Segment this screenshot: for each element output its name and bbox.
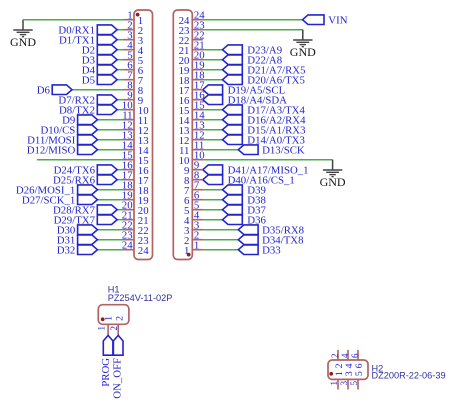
signal flag D13/SCK	[238, 145, 258, 155]
wire D29/TX7 to J1 pin 21	[117, 219, 124, 221]
signal flag D40/A16/CS_1	[203, 175, 223, 185]
label GND (GND1 top-left)	[10, 35, 36, 49]
connector J1 body (24-pin header, left)	[134, 10, 153, 260]
pin number H2.2	[330, 353, 340, 358]
connector H1 body	[98, 305, 129, 325]
signal flag D3	[97, 55, 117, 65]
svg-text:1: 1	[97, 326, 107, 331]
svg-text:2: 2	[330, 353, 340, 358]
pin name H2.2	[334, 363, 345, 368]
wire J2 pin 19 to D21/A7/RX5	[203, 69, 223, 71]
net label D37	[247, 204, 266, 216]
pin H2.5 (stub bottom)	[357, 379, 359, 389]
signal flag D41/A17/MISO_1	[203, 165, 223, 175]
signal flag D39	[223, 185, 243, 195]
wire D28/RX7 to J1 pin 20	[117, 209, 124, 211]
net label ON_OFF	[112, 358, 124, 399]
pins J1 1-24 (stubs)	[124, 20, 135, 250]
label VIN	[328, 14, 347, 26]
signal flag D19/A5/SCL	[203, 85, 223, 95]
signal flag D34/TX8	[238, 235, 258, 245]
wire J2 pin 3 to D35/RX8	[203, 229, 239, 231]
wire J2 pin 15 to D17/A3/TX4	[203, 109, 223, 111]
wire D7/RX2 to J1 pin 9	[117, 99, 124, 101]
net label D18/A4/SDA	[228, 94, 288, 106]
net label D23/A9	[247, 44, 282, 56]
net label D14/A0/TX3	[247, 134, 305, 146]
net label D39	[247, 184, 266, 196]
svg-text:4: 4	[340, 353, 350, 358]
svg-text:2: 2	[114, 316, 125, 321]
net label D13/SCK	[262, 144, 305, 156]
wire GND1 to J1 pin 1	[23, 19, 124, 21]
wire D6 to J1 pin 8	[72, 89, 124, 91]
svg-text:D33: D33	[262, 244, 281, 256]
net label D33	[262, 244, 281, 256]
power symbol GND (GND2 right)	[323, 160, 342, 177]
signal flag D25/RX6	[97, 175, 117, 185]
signal flag D36	[223, 215, 243, 225]
signal flag D30	[78, 225, 98, 235]
signal flag D37	[223, 205, 243, 215]
signal flag D31	[78, 235, 98, 245]
svg-text:D13/SCK: D13/SCK	[262, 144, 305, 156]
net label D34/TX8	[262, 234, 303, 246]
signal flag D22/A8	[223, 55, 243, 65]
net label D15/A1/RX3	[247, 124, 305, 136]
svg-text:24: 24	[122, 240, 133, 252]
net label D41/A17/MISO_1	[228, 164, 309, 176]
net label D11/MOSI	[27, 134, 76, 146]
signal flag D33	[238, 245, 258, 255]
signal flag D16/A2/RX4	[223, 115, 243, 125]
svg-text:D32: D32	[57, 244, 76, 256]
wire D5 to J1 pin 7	[117, 79, 124, 81]
net label D19/A5/SCL	[228, 84, 286, 96]
wire D25/RX6 to J1 pin 17	[117, 179, 124, 181]
svg-text:PROG: PROG	[100, 358, 112, 387]
net label D24/TX6	[54, 164, 96, 176]
pin numbers J2 (outside)	[194, 10, 205, 252]
signal flag D32	[78, 245, 98, 255]
signal flag D38	[223, 195, 243, 205]
signal flag D0/RX1	[97, 25, 117, 35]
pin name H1.1	[103, 316, 114, 321]
net label D38	[247, 194, 266, 206]
pins J2 1-24 (stubs)	[192, 20, 203, 250]
pin-1 mark J1	[136, 13, 140, 17]
signal flag D26/MOSI_1	[78, 185, 98, 195]
connector J2 body (24-pin header, right)	[173, 10, 192, 260]
wire J2 pin 7 to D39	[203, 189, 223, 191]
svg-text:5: 5	[349, 380, 359, 385]
signal flag D11/MOSI	[78, 135, 98, 145]
wire D1/TX1 to J1 pin 3	[117, 39, 124, 41]
wire D12/MISO to J1 pin 14	[97, 149, 123, 151]
pin name H2.5	[354, 371, 365, 376]
power flag VIN	[303, 15, 325, 25]
wire D2 to J1 pin 4	[117, 49, 124, 51]
power symbol GND (GND3 top-right)	[293, 30, 312, 47]
wire D9 to J1 pin 11	[97, 119, 123, 121]
wire J2 pin 20 to D22/A8	[203, 59, 223, 61]
net label D30	[57, 224, 76, 236]
net label D10/CS	[40, 124, 75, 136]
wire D11/MOSI to J1 pin 13	[97, 139, 123, 141]
pin name H2.6	[354, 363, 365, 368]
signal flag D12/MISO	[78, 145, 98, 155]
wire J2 pin 23 to GND	[203, 29, 303, 31]
pin names J1 (inside)	[138, 15, 149, 257]
net label D9	[62, 114, 75, 126]
svg-text:GND: GND	[320, 175, 346, 189]
net label D25/RX6	[53, 174, 96, 186]
connector H2 body	[328, 360, 368, 379]
pin H1.1 (stub)	[107, 324, 109, 335]
pin number H1.1	[97, 326, 107, 331]
net label D7/RX2	[58, 94, 95, 106]
wire D31 to J1 pin 23	[97, 239, 123, 241]
svg-text:6: 6	[350, 353, 360, 358]
wire J2 pin 13 to D15/A1/RX3	[203, 129, 223, 131]
signal flag D18/A4/SDA	[203, 95, 223, 105]
net label D35/RX8	[262, 224, 304, 236]
net label D36	[247, 214, 266, 226]
net label D8/TX2	[59, 104, 95, 116]
label GND (GND3 top-right)	[290, 45, 316, 59]
pin H2.4 (stub top)	[347, 350, 349, 360]
pin number H2.4	[340, 353, 350, 358]
signal flag D15/A1/RX3	[223, 125, 243, 135]
signal flag D7/RX2	[97, 95, 117, 105]
designator H1	[108, 284, 120, 294]
svg-text:5: 5	[354, 371, 365, 376]
wire J2 pin 10 to GND	[203, 159, 333, 161]
wire J2 pin 4 to D36	[203, 219, 223, 221]
svg-text:VIN: VIN	[328, 14, 347, 26]
signal flag D17/A3/TX4	[223, 105, 243, 115]
wire J2 pin 1 to D33	[203, 249, 239, 251]
pin name H1.2	[114, 316, 125, 321]
pin-1 mark H1	[101, 317, 105, 321]
pin H2.3 (stub bottom)	[347, 379, 349, 389]
signal flag D29/TX7	[97, 215, 117, 225]
wire J2 pin 21 to D23/A9	[203, 49, 223, 51]
designator H2	[372, 364, 384, 374]
wire J2 pin 12 to D14/A0/TX3	[203, 139, 223, 141]
signal flag D4	[97, 65, 117, 75]
signal flag D23/A9	[223, 45, 243, 55]
label GND (GND2 right)	[320, 175, 346, 189]
signal flag PROG	[103, 335, 113, 355]
pin number H2.1	[329, 381, 339, 386]
pin H2.2 (stub top)	[337, 350, 339, 360]
signal flag D20/A6/TX5	[223, 75, 243, 85]
net label D16/A2/RX4	[247, 114, 306, 126]
svg-text:24: 24	[138, 245, 149, 257]
pin H1.2 (stub)	[117, 324, 119, 335]
svg-text:D6: D6	[37, 84, 51, 96]
pin name H2.4	[344, 363, 355, 368]
svg-text:24: 24	[179, 15, 190, 27]
net label D17/A3/TX4	[247, 104, 305, 116]
wire D4 to J1 pin 6	[117, 69, 124, 71]
signal flag D24/TX6	[97, 165, 117, 175]
net label D29/TX7	[54, 214, 96, 226]
wire J2 pin 18 to D20/A6/TX5	[203, 79, 223, 81]
signal flag D6	[52, 85, 72, 95]
wire J2 pin 6 to D38	[203, 199, 223, 201]
comment H1 PZ254V-11-02P	[108, 293, 173, 303]
net label D12/MISO	[27, 144, 76, 156]
net label D3	[82, 54, 95, 66]
net label D31	[57, 234, 76, 246]
net label D28/RX7	[53, 204, 96, 216]
net label D1/TX1	[59, 34, 95, 46]
pin H2.1 (stub bottom)	[337, 379, 339, 389]
net label D5	[82, 74, 95, 86]
power symbol GND (GND1 top-left)	[13, 20, 32, 37]
pin numbers J1 (outside)	[122, 10, 133, 252]
pin number H2.6	[350, 353, 360, 358]
net label D6	[37, 84, 51, 96]
signal flag D5	[97, 75, 117, 85]
svg-text:PZ254V-11-02P: PZ254V-11-02P	[108, 293, 173, 303]
wire J2 pin 5 to D37	[203, 209, 223, 211]
wire J2 pin 14 to D16/A2/RX4	[203, 119, 223, 121]
wire D8/TX2 to J1 pin 10	[117, 109, 124, 111]
svg-text:DZ200R-22-06-39: DZ200R-22-06-39	[372, 371, 446, 381]
wire D26/MOSI_1 to J1 pin 18	[97, 189, 123, 191]
svg-text:D12/MISO: D12/MISO	[27, 144, 76, 156]
signal flag D10/CS	[78, 125, 98, 135]
pin-1 mark H2	[329, 372, 333, 376]
pin name H2.1	[334, 371, 345, 376]
svg-text:2: 2	[109, 326, 119, 331]
wire J2 pin 11 to D13/SCK	[203, 149, 239, 151]
svg-text:3: 3	[339, 380, 349, 385]
net label D0/RX1	[58, 24, 95, 36]
net label D2	[82, 44, 95, 56]
signal flag D2	[97, 45, 117, 55]
net label D4	[82, 64, 96, 76]
pin number H2.5	[349, 380, 359, 385]
signal flag ON_OFF	[113, 335, 123, 355]
svg-text:ON_OFF: ON_OFF	[112, 358, 124, 399]
net label D27/SCK_1	[22, 194, 75, 206]
signal flag D27/SCK_1	[78, 195, 98, 205]
wire D27/SCK_1 to J1 pin 19	[97, 199, 123, 201]
wire D24/TX6 to J1 pin 16	[117, 169, 124, 171]
wire J1 pin 15 stub-out	[37, 159, 124, 161]
signal flag D28/RX7	[97, 205, 117, 215]
wire D0/RX1 to J1 pin 2	[117, 29, 124, 31]
net label D20/A6/TX5	[247, 74, 305, 86]
signal flag D1/TX1	[97, 35, 117, 45]
svg-text:24: 24	[194, 10, 205, 22]
net label D22/A8	[247, 54, 282, 66]
net label D26/MOSI_1	[16, 184, 75, 196]
comment H2 DZ200R-22-06-39	[372, 371, 446, 381]
net label D40/A16/CS_1	[228, 174, 295, 186]
svg-text:D5: D5	[82, 74, 95, 86]
signal flag D21/A7/RX5	[223, 65, 243, 75]
svg-text:GND: GND	[290, 45, 316, 59]
pin number H1.2	[109, 326, 119, 331]
pin number H2.3	[339, 380, 349, 385]
signal flag D8/TX2	[97, 105, 117, 115]
pin-1 mark J2	[187, 253, 191, 257]
signal flag D14/A0/TX3	[223, 135, 243, 145]
pin H2.6 (stub top)	[357, 350, 359, 360]
net label PROG	[100, 358, 112, 387]
svg-text:1: 1	[103, 316, 114, 321]
svg-text:1: 1	[329, 381, 339, 386]
svg-text:GND: GND	[10, 35, 36, 49]
wire J2 pin 2 to D34/TX8	[203, 239, 239, 241]
signal flag D35/RX8	[238, 225, 258, 235]
net label D21/A7/RX5	[247, 64, 305, 76]
signal flag D9	[78, 115, 98, 125]
svg-text:6: 6	[354, 363, 365, 368]
pin name H2.3	[344, 371, 355, 376]
wire J2 pin 24 to VIN	[203, 19, 303, 21]
wire D10/CS to J1 pin 12	[97, 129, 123, 131]
pin names J2 (inside)	[179, 15, 190, 257]
wire D32 to J1 pin 24	[97, 249, 123, 251]
net label D32	[57, 244, 76, 256]
wire D30 to J1 pin 22	[97, 229, 123, 231]
wire D3 to J1 pin 5	[117, 59, 124, 61]
